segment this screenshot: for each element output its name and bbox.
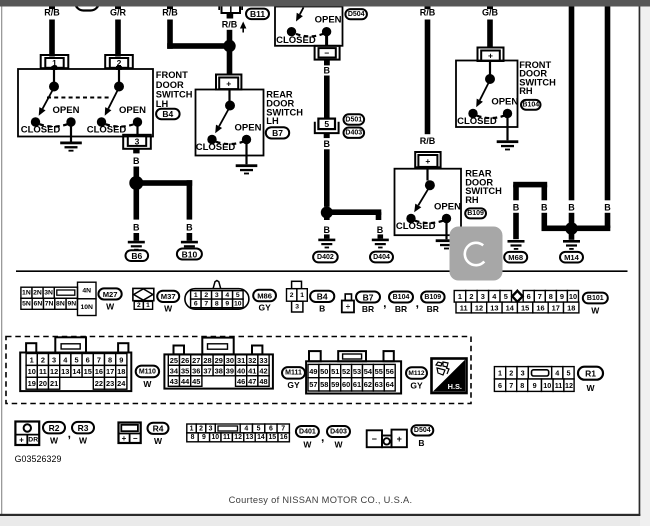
svg-text:2: 2	[199, 425, 203, 432]
svg-text:W: W	[586, 383, 595, 393]
svg-text:B: B	[418, 438, 424, 448]
svg-text:B: B	[133, 223, 140, 233]
svg-text:9: 9	[202, 434, 206, 441]
svg-text:R1: R1	[585, 369, 596, 379]
svg-text:CLOSED: CLOSED	[87, 124, 127, 135]
svg-text:M111: M111	[285, 370, 302, 377]
svg-text:W: W	[143, 379, 152, 389]
svg-text:2N: 2N	[33, 290, 42, 297]
svg-text:14: 14	[257, 434, 265, 441]
svg-text:7: 7	[509, 381, 513, 390]
svg-text:W: W	[591, 305, 600, 315]
svg-text:1: 1	[458, 292, 462, 301]
svg-text:55: 55	[375, 367, 383, 376]
svg-text:41: 41	[248, 366, 256, 375]
svg-text:35: 35	[181, 366, 189, 375]
svg-text:61: 61	[353, 380, 361, 389]
svg-text:B11: B11	[250, 9, 265, 19]
svg-text:B: B	[324, 65, 331, 75]
svg-text:1N: 1N	[22, 290, 31, 297]
svg-text:30: 30	[226, 356, 234, 365]
svg-text:13: 13	[61, 367, 69, 376]
svg-text:17: 17	[552, 303, 560, 312]
svg-text:LH: LH	[156, 99, 169, 109]
svg-text:53: 53	[353, 367, 361, 376]
svg-text:3N: 3N	[44, 290, 53, 297]
svg-text:GY: GY	[410, 381, 423, 391]
svg-text:10N: 10N	[80, 304, 93, 311]
svg-text:4: 4	[225, 292, 229, 299]
svg-text:+: +	[397, 434, 402, 444]
svg-text:17: 17	[106, 367, 114, 376]
svg-text:48: 48	[259, 377, 267, 386]
svg-text:3: 3	[135, 136, 140, 146]
svg-text:29: 29	[215, 356, 223, 365]
svg-text:9N: 9N	[67, 301, 76, 308]
svg-text:R/B: R/B	[222, 20, 238, 30]
svg-text:3: 3	[52, 355, 56, 364]
svg-text:+: +	[226, 78, 231, 88]
svg-text:64: 64	[386, 380, 395, 389]
svg-text:B: B	[186, 223, 193, 233]
svg-text:+: +	[425, 156, 430, 166]
svg-text:12: 12	[50, 367, 58, 376]
svg-text:13: 13	[246, 434, 254, 441]
svg-text:DR: DR	[28, 436, 38, 443]
svg-text:R/B: R/B	[162, 7, 178, 17]
svg-text:R4: R4	[153, 424, 164, 434]
svg-text:8: 8	[108, 355, 112, 364]
svg-text:12: 12	[234, 434, 242, 441]
svg-text:W: W	[164, 304, 173, 314]
svg-text:5: 5	[236, 292, 240, 299]
svg-text:33: 33	[259, 356, 267, 365]
svg-text:20: 20	[39, 379, 47, 388]
svg-text:59: 59	[331, 380, 339, 389]
svg-text:13: 13	[490, 303, 498, 312]
svg-text:6: 6	[194, 300, 198, 307]
svg-text:25: 25	[170, 356, 178, 365]
svg-text:W: W	[50, 436, 59, 446]
svg-text:22: 22	[95, 379, 103, 388]
svg-text:3: 3	[295, 303, 299, 310]
svg-text:BR: BR	[362, 304, 374, 314]
svg-text:56: 56	[386, 367, 394, 376]
svg-text:OPEN: OPEN	[119, 105, 146, 116]
svg-text:1: 1	[194, 292, 198, 299]
svg-text:27: 27	[192, 356, 200, 365]
svg-text:11: 11	[223, 434, 230, 441]
svg-text:,: ,	[416, 296, 419, 310]
svg-text:58: 58	[320, 380, 328, 389]
svg-text:11: 11	[555, 381, 563, 390]
svg-text:10: 10	[211, 434, 219, 441]
svg-text:LH: LH	[266, 116, 279, 126]
svg-text:5: 5	[324, 119, 329, 129]
svg-text:R3: R3	[78, 423, 89, 433]
svg-text:9: 9	[533, 381, 537, 390]
svg-text:51: 51	[331, 367, 339, 376]
svg-text:2: 2	[137, 302, 141, 309]
svg-text:−: −	[372, 434, 377, 444]
svg-text:,: ,	[383, 296, 386, 310]
svg-text:1: 1	[190, 425, 194, 432]
svg-text:2: 2	[290, 292, 294, 299]
svg-text:D504: D504	[348, 11, 365, 18]
svg-text:1: 1	[498, 369, 502, 378]
svg-text:28: 28	[203, 356, 211, 365]
svg-text:42: 42	[259, 366, 267, 375]
svg-text:5: 5	[567, 369, 571, 378]
svg-text:GY: GY	[287, 380, 300, 390]
svg-text:5N: 5N	[22, 301, 31, 308]
svg-text:Courtesy of NISSAN MOTOR CO.,: Courtesy of NISSAN MOTOR CO., U.S.A.	[229, 495, 413, 505]
svg-text:B4: B4	[162, 109, 173, 119]
svg-text:OPEN: OPEN	[434, 201, 461, 212]
svg-text:7: 7	[281, 425, 285, 432]
svg-text:B7: B7	[363, 292, 374, 302]
svg-text:12: 12	[565, 381, 573, 390]
svg-text:CLOSED: CLOSED	[21, 124, 61, 135]
svg-text:6: 6	[527, 292, 531, 301]
svg-text:D403: D403	[330, 428, 347, 435]
svg-text:RH: RH	[519, 86, 533, 96]
svg-text:D402: D402	[317, 254, 334, 261]
svg-text:R/B: R/B	[44, 7, 60, 17]
svg-text:44: 44	[181, 377, 190, 386]
svg-text:B: B	[604, 203, 611, 213]
svg-text:M14: M14	[564, 253, 580, 262]
svg-text:D401: D401	[299, 428, 316, 435]
svg-text:34: 34	[170, 366, 179, 375]
svg-text:9: 9	[225, 300, 229, 307]
svg-text:31: 31	[237, 356, 245, 365]
svg-text:GY: GY	[258, 303, 271, 313]
svg-text:CLOSED: CLOSED	[396, 221, 436, 232]
svg-text:19: 19	[28, 379, 36, 388]
svg-text:8: 8	[215, 300, 219, 307]
svg-text:M110: M110	[139, 368, 156, 375]
svg-text:6N: 6N	[34, 301, 43, 308]
svg-text:7: 7	[538, 292, 542, 301]
svg-text:6: 6	[269, 425, 273, 432]
svg-text:9: 9	[560, 292, 564, 301]
svg-text:W: W	[334, 440, 343, 450]
svg-text:B104: B104	[393, 294, 410, 301]
svg-text:W: W	[106, 301, 115, 311]
svg-text:D404: D404	[373, 254, 390, 261]
svg-text:M27: M27	[103, 290, 118, 299]
svg-text:10: 10	[569, 292, 577, 301]
svg-text:3: 3	[209, 425, 213, 432]
svg-text:CLOSED: CLOSED	[196, 142, 236, 153]
svg-text:B7: B7	[272, 128, 283, 138]
svg-text:B10: B10	[182, 249, 198, 259]
svg-text:1: 1	[30, 355, 34, 364]
svg-text:B: B	[377, 225, 384, 235]
svg-text:14: 14	[506, 303, 515, 312]
svg-text:43: 43	[170, 377, 178, 386]
svg-text:4: 4	[555, 369, 559, 378]
svg-text:21: 21	[50, 379, 58, 388]
svg-text:B: B	[324, 139, 331, 149]
svg-text:40: 40	[237, 366, 245, 375]
svg-text:14: 14	[72, 367, 81, 376]
svg-text:8: 8	[191, 434, 195, 441]
svg-text:39: 39	[226, 366, 234, 375]
svg-text:1: 1	[146, 302, 150, 309]
svg-text:+: +	[19, 435, 24, 444]
svg-text:B: B	[319, 304, 325, 314]
svg-text:2: 2	[509, 369, 513, 378]
svg-text:10: 10	[234, 300, 242, 307]
svg-text:9: 9	[119, 355, 123, 364]
svg-text:B109: B109	[424, 294, 441, 301]
svg-text:5: 5	[257, 425, 261, 432]
svg-text:M86: M86	[257, 291, 272, 300]
svg-text:8: 8	[549, 292, 553, 301]
svg-text:,: ,	[321, 430, 324, 444]
svg-text:÷: ÷	[346, 302, 351, 311]
svg-text:32: 32	[248, 356, 256, 365]
svg-text:57: 57	[309, 380, 317, 389]
svg-text:15: 15	[268, 434, 276, 441]
svg-text:16: 16	[536, 303, 544, 312]
svg-text:16: 16	[95, 367, 103, 376]
svg-text:FRONT: FRONT	[156, 70, 188, 80]
svg-text:W: W	[79, 436, 88, 446]
svg-text:B101: B101	[587, 295, 604, 302]
svg-text:+: +	[122, 434, 127, 443]
svg-text:G03526329: G03526329	[15, 454, 62, 464]
svg-text:6: 6	[498, 381, 502, 390]
svg-text:B104: B104	[522, 102, 539, 109]
svg-text:CLOSED: CLOSED	[457, 116, 497, 127]
svg-text:CLOSED: CLOSED	[276, 35, 316, 46]
svg-text:OPEN: OPEN	[53, 105, 80, 116]
svg-text:24: 24	[117, 379, 126, 388]
svg-text:10: 10	[543, 381, 551, 390]
svg-text:60: 60	[342, 380, 350, 389]
svg-text:B6: B6	[131, 251, 142, 261]
svg-text:4N: 4N	[82, 287, 91, 294]
svg-text:15: 15	[521, 303, 529, 312]
svg-text:7: 7	[204, 300, 208, 307]
svg-text:8N: 8N	[56, 301, 65, 308]
svg-text:SWITCH: SWITCH	[156, 89, 193, 99]
svg-text:B: B	[568, 203, 575, 213]
svg-text:7: 7	[97, 355, 101, 364]
svg-text:2: 2	[469, 292, 473, 301]
svg-text:11: 11	[39, 367, 47, 376]
svg-text:16: 16	[280, 434, 288, 441]
svg-text:M37: M37	[161, 292, 176, 301]
svg-text:15: 15	[84, 367, 92, 376]
svg-text:B: B	[133, 156, 140, 166]
svg-text:R/B: R/B	[420, 7, 436, 17]
svg-text:BR: BR	[395, 304, 407, 314]
svg-text:BR: BR	[427, 304, 439, 314]
svg-text:+: +	[488, 51, 493, 61]
svg-text:OPEN: OPEN	[315, 15, 342, 26]
svg-text:H.S.: H.S.	[448, 382, 462, 391]
svg-text:R/B: R/B	[420, 136, 436, 146]
svg-text:OPEN: OPEN	[235, 122, 262, 133]
svg-text:7N: 7N	[45, 301, 54, 308]
svg-text:49: 49	[309, 367, 317, 376]
svg-text:45: 45	[192, 377, 200, 386]
svg-text:18: 18	[117, 367, 125, 376]
svg-text:B109: B109	[467, 210, 484, 217]
svg-text:3: 3	[481, 292, 485, 301]
svg-text:46: 46	[237, 377, 245, 386]
svg-text:W: W	[303, 440, 312, 450]
svg-text:,: ,	[68, 427, 71, 441]
svg-text:38: 38	[215, 366, 223, 375]
svg-text:10: 10	[28, 367, 36, 376]
svg-text:D504: D504	[414, 427, 431, 434]
svg-text:36: 36	[192, 366, 200, 375]
svg-text:52: 52	[342, 367, 350, 376]
svg-text:2: 2	[204, 292, 208, 299]
svg-text:−: −	[324, 48, 329, 58]
svg-text:3: 3	[215, 292, 219, 299]
svg-text:26: 26	[181, 356, 189, 365]
svg-text:OPEN: OPEN	[491, 96, 518, 107]
svg-text:63: 63	[375, 380, 383, 389]
svg-text:M112: M112	[408, 370, 424, 377]
svg-text:B: B	[541, 203, 548, 213]
svg-text:62: 62	[364, 380, 372, 389]
svg-text:23: 23	[106, 379, 114, 388]
svg-text:B4: B4	[317, 292, 328, 302]
svg-text:54: 54	[364, 367, 373, 376]
svg-text:47: 47	[248, 377, 256, 386]
svg-text:G/R: G/R	[110, 7, 127, 17]
svg-text:3: 3	[521, 369, 525, 378]
svg-text:−: −	[133, 434, 138, 443]
svg-text:R2: R2	[49, 423, 60, 433]
svg-text:B: B	[513, 203, 520, 213]
svg-text:RH: RH	[465, 195, 479, 205]
svg-text:M68: M68	[508, 253, 523, 262]
svg-text:50: 50	[320, 367, 328, 376]
svg-text:11: 11	[460, 303, 468, 312]
svg-text:D501: D501	[345, 116, 362, 123]
svg-text:B: B	[324, 225, 331, 235]
svg-text:4: 4	[244, 425, 248, 432]
svg-text:D403: D403	[345, 130, 362, 137]
svg-text:12: 12	[475, 303, 483, 312]
svg-text:G/B: G/B	[482, 7, 499, 17]
svg-text:18: 18	[567, 303, 575, 312]
svg-text:6: 6	[86, 355, 90, 364]
svg-text:5: 5	[504, 292, 508, 301]
svg-text:2: 2	[41, 355, 45, 364]
svg-text:1: 1	[300, 292, 304, 299]
svg-text:5: 5	[74, 355, 78, 364]
svg-text:8: 8	[520, 381, 524, 390]
svg-text:W: W	[154, 436, 163, 446]
svg-text:DOOR: DOOR	[156, 80, 184, 90]
svg-text:37: 37	[203, 366, 211, 375]
